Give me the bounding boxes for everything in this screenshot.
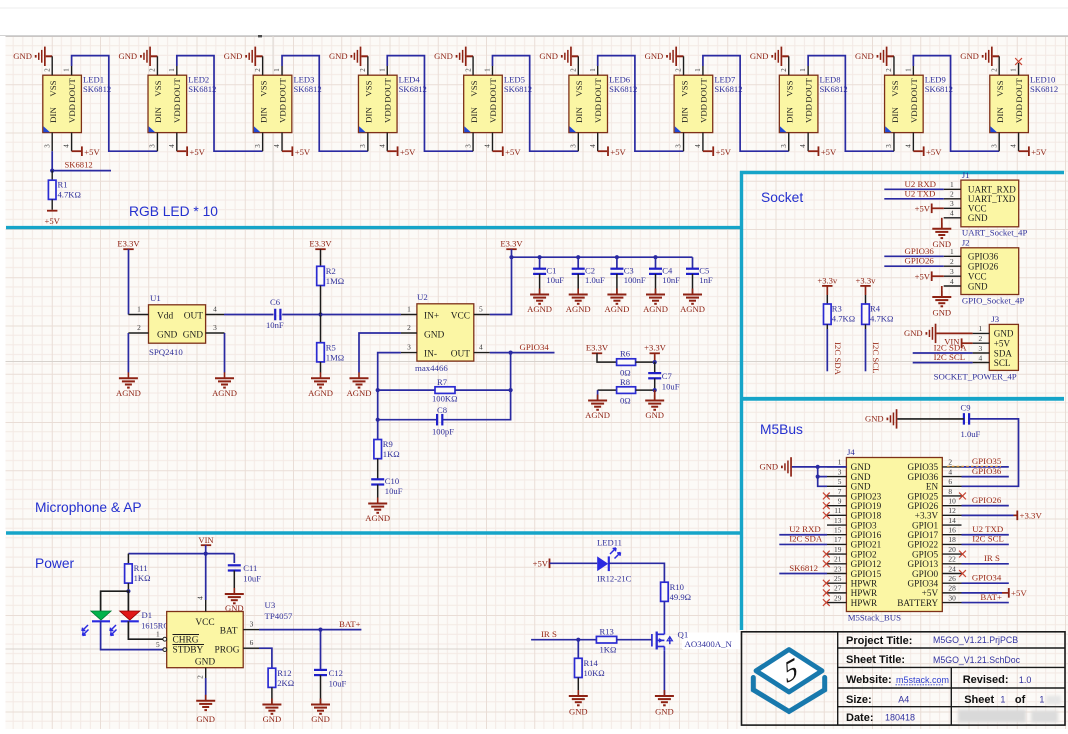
ground AGND (U2 pin2) xyxy=(358,372,360,378)
svg-text:GPIO26: GPIO26 xyxy=(972,495,1002,505)
svg-text:5: 5 xyxy=(156,640,160,649)
svg-text:GPIO26: GPIO26 xyxy=(905,256,935,266)
wire LED11 to R10 xyxy=(609,563,665,582)
pin 8 GPIO25 (J4 right) xyxy=(907,487,961,502)
capacitor C1 10uF xyxy=(533,257,564,293)
wire C6 to node xyxy=(282,314,320,316)
LED11 IR12-21C xyxy=(597,548,620,571)
wire GPIO34 from J4.26 xyxy=(962,572,1009,583)
svg-text:VSS: VSS xyxy=(153,80,163,96)
ground GND (J1.4) xyxy=(941,218,943,229)
svg-text:C5: C5 xyxy=(699,266,709,276)
ground GND (R14) xyxy=(577,690,579,696)
svg-text:Sheet: Sheet xyxy=(964,694,994,706)
RGB LED LED9 SK6812 component body xyxy=(885,75,924,132)
svg-text:GND: GND xyxy=(760,462,779,472)
svg-text:1: 1 xyxy=(156,630,160,639)
svg-text:AGND: AGND xyxy=(212,388,237,398)
ground AGND (U1 pin2) xyxy=(127,372,129,378)
svg-text:14: 14 xyxy=(948,516,956,525)
resistor R4 4.7K xyxy=(862,304,894,372)
node rail junction C2 xyxy=(576,255,580,259)
power VIN (J3.2) xyxy=(944,336,972,348)
pin 19 GPIO2 (J4 left) xyxy=(827,545,877,560)
svg-text:2: 2 xyxy=(780,68,788,72)
pin 6 PROG (U3) xyxy=(243,638,259,648)
power +3.3v (R4) xyxy=(856,275,877,304)
svg-text:+3.3V: +3.3V xyxy=(915,511,939,521)
svg-text:LED8: LED8 xyxy=(820,75,841,85)
svg-text:VDD: VDD xyxy=(698,104,708,123)
svg-text:M5GO_V1.21.PrjPCB: M5GO_V1.21.PrjPCB xyxy=(933,635,1018,645)
svg-text:C12: C12 xyxy=(329,668,343,678)
svg-text:3: 3 xyxy=(43,144,51,148)
svg-text:GPIO12: GPIO12 xyxy=(851,559,882,569)
svg-text:VDD: VDD xyxy=(593,104,603,123)
svg-text:100KΩ: 100KΩ xyxy=(432,394,457,404)
pin 3 DIN stub (LED9) xyxy=(885,133,894,152)
svg-text:Sheet Title:: Sheet Title: xyxy=(846,654,905,666)
node gnd junction pin1 xyxy=(816,465,820,469)
pin 4 GPIO36 (J4 right) xyxy=(907,467,961,482)
svg-text:GND: GND xyxy=(994,329,1014,339)
pin 3 GND right (U1) with wire to AGND xyxy=(206,323,225,373)
svg-text:100pF: 100pF xyxy=(432,427,454,437)
connector J3 body xyxy=(989,324,1018,370)
pin 11 GPIO18 (J4 left) xyxy=(827,506,882,521)
svg-text:E3.3V: E3.3V xyxy=(309,239,332,249)
svg-text:4: 4 xyxy=(904,144,912,148)
svg-text:I2C SCL: I2C SCL xyxy=(972,534,1004,544)
pin 30 BATTERY (J4 right) xyxy=(897,593,961,608)
pin 4 VDD stub and +5V power (LED8) xyxy=(799,133,837,157)
power +3.3V (J4.12) xyxy=(962,510,1043,520)
svg-text:1: 1 xyxy=(1010,68,1018,72)
svg-text:24: 24 xyxy=(948,564,956,573)
title block: Sheet Title xyxy=(846,654,1021,666)
pin 1 CHRG (U3) bubble xyxy=(156,630,167,642)
no-connect X on LED10 DOUT xyxy=(1018,63,1020,66)
svg-text:4.7KΩ: 4.7KΩ xyxy=(832,314,855,324)
ground AGND (R8) xyxy=(597,395,599,401)
RGB LED LED3 SK6812 component body xyxy=(253,75,292,132)
pin 3 DIN stub (LED5) xyxy=(464,133,473,152)
svg-text:49.9Ω: 49.9Ω xyxy=(670,592,691,602)
capacitor C10 10uF xyxy=(371,476,402,498)
net label IR_S wire xyxy=(531,629,596,640)
pin 1 DOUT stub (LED3) xyxy=(273,66,282,75)
svg-text:+3.3v: +3.3v xyxy=(856,275,877,285)
pin 3 DIN stub (LED8) xyxy=(780,133,789,152)
svg-text:GPIO5: GPIO5 xyxy=(912,549,938,559)
title block: Date 180418 xyxy=(846,712,915,724)
svg-text:+5V: +5V xyxy=(1011,588,1027,598)
wire SK6812 to J4.23 xyxy=(779,563,827,574)
wire I2C_SCL from J4.18 xyxy=(962,534,1009,545)
pin 1 UART_RXD (J1) xyxy=(944,180,1017,195)
svg-text:1: 1 xyxy=(950,180,954,189)
svg-text:R13: R13 xyxy=(600,627,614,637)
svg-text:of: of xyxy=(1015,694,1026,706)
svg-text:LED7: LED7 xyxy=(714,75,736,85)
svg-text:3: 3 xyxy=(407,343,411,352)
title block: Sheet 1 of 1 xyxy=(964,694,1044,706)
svg-text:SK6812: SK6812 xyxy=(399,84,427,94)
wire OUT to GPIO34 xyxy=(490,342,555,353)
ground GND (J4 pins 1/3/5) xyxy=(760,457,847,476)
svg-text:DOUT: DOUT xyxy=(67,78,77,103)
RGB LED LED8 SK6812 component body xyxy=(779,75,818,132)
pin 1 GND (J4 left) xyxy=(827,458,871,473)
svg-text:DOUT: DOUT xyxy=(277,78,287,103)
svg-text:GND: GND xyxy=(311,714,330,724)
svg-text:VSS: VSS xyxy=(679,80,689,96)
svg-text:1: 1 xyxy=(978,324,982,333)
svg-text:DIN: DIN xyxy=(364,107,374,123)
svg-text:20: 20 xyxy=(948,545,956,554)
svg-text:2: 2 xyxy=(149,68,157,72)
svg-text:U2 TXD: U2 TXD xyxy=(905,188,936,198)
wire green LED cathode to U3 pin5 xyxy=(101,621,163,649)
svg-text:GPIO36: GPIO36 xyxy=(905,246,935,256)
faint major grid lines xyxy=(0,361,1068,363)
svg-text:GND: GND xyxy=(851,462,871,472)
pin 12 +3.3V (J4 right) xyxy=(915,506,962,521)
svg-text:+5V: +5V xyxy=(915,204,931,214)
pin 24 GPIO0 (J4 right) xyxy=(912,564,961,579)
svg-text:0Ω: 0Ω xyxy=(620,396,631,406)
ground GND (C7) xyxy=(654,390,656,399)
svg-text:R12: R12 xyxy=(277,668,291,678)
svg-text:AGND: AGND xyxy=(365,513,390,523)
node C7/R8 junction xyxy=(653,388,657,392)
ground GND (R12) xyxy=(271,699,273,705)
svg-text:+5V: +5V xyxy=(45,216,61,226)
svg-text:AGND: AGND xyxy=(308,388,333,398)
wire U2_TXD to J1.2 xyxy=(884,188,943,199)
svg-text:DOUT: DOUT xyxy=(698,78,708,103)
node mic bias junction xyxy=(318,312,322,316)
capacitor C2 1.0uF xyxy=(572,257,605,293)
pin 2 VSS stub (LED3) xyxy=(254,56,263,75)
ground GND (Q1) xyxy=(663,690,665,696)
svg-text:Revised:: Revised: xyxy=(963,674,1009,686)
svg-text:4: 4 xyxy=(799,144,807,148)
svg-text:2: 2 xyxy=(978,334,982,343)
pin 4 VDD stub and +5V power (LED7) xyxy=(694,133,732,157)
title block: Size A4 xyxy=(846,694,909,706)
wire DOUT LED3 to DIN LED4 xyxy=(282,56,368,152)
svg-text:AGND: AGND xyxy=(347,388,372,398)
power E3.3V (R2 top) xyxy=(309,239,332,267)
resistor R1 4.7K xyxy=(48,171,80,200)
RGB LED LED6 SK6812 component body xyxy=(569,75,608,132)
node R7 right junction xyxy=(509,388,513,392)
svg-text:4: 4 xyxy=(694,144,702,148)
power E3.3V (U1 supply) xyxy=(117,239,140,315)
M5 logo cube xyxy=(753,650,824,712)
svg-text:1: 1 xyxy=(407,305,411,314)
svg-text:29: 29 xyxy=(834,593,842,602)
ground GND (top of LED4) xyxy=(329,47,368,66)
svg-text:3: 3 xyxy=(838,467,842,476)
svg-text:IN-: IN- xyxy=(424,350,437,360)
svg-text:IR S: IR S xyxy=(541,629,557,639)
designator label LED9 / SK6812 xyxy=(925,75,953,95)
title block: Revised 1.0 xyxy=(963,674,1032,686)
svg-text:28: 28 xyxy=(948,584,956,593)
wire PROG to R12 xyxy=(259,648,272,668)
resistor R8 0ohm xyxy=(598,377,655,406)
wire DOUT LED9 to DIN LED10 xyxy=(913,56,999,152)
svg-text:3: 3 xyxy=(149,144,157,148)
svg-text:GPIO34: GPIO34 xyxy=(972,572,1002,582)
svg-text:AGND: AGND xyxy=(116,388,141,398)
wire LED1 DIN down to SK6812 net xyxy=(51,151,53,170)
svg-text:VCC: VCC xyxy=(968,272,987,282)
svg-text:LED2: LED2 xyxy=(188,75,209,85)
connector J2 body xyxy=(961,248,1019,295)
svg-text:I2C SCL: I2C SCL xyxy=(934,352,966,362)
svg-text:2: 2 xyxy=(195,675,204,679)
svg-text:1: 1 xyxy=(168,68,176,72)
svg-text:3: 3 xyxy=(213,323,217,332)
power +5V (J1.3) xyxy=(915,204,944,214)
svg-text:10: 10 xyxy=(948,496,956,505)
ground GND (top of LED10) xyxy=(960,47,999,66)
pin 1 DOUT stub (LED2) xyxy=(168,66,177,75)
svg-text:2: 2 xyxy=(407,323,411,332)
wire GPIO36 to J2.1 xyxy=(884,246,943,256)
pin 20 GPIO5 (J4 right) xyxy=(912,545,961,560)
svg-text:R8: R8 xyxy=(620,377,630,387)
svg-text:VDD: VDD xyxy=(383,104,393,123)
ground GND (U3 pin2) xyxy=(205,695,207,701)
svg-text:+5V: +5V xyxy=(994,339,1011,349)
power +5V (IR LED) xyxy=(533,559,598,569)
capacitor C8 100pF (feedback) xyxy=(378,405,454,437)
svg-text:1: 1 xyxy=(589,68,597,72)
svg-text:2: 2 xyxy=(254,68,262,72)
svg-text:3: 3 xyxy=(675,144,683,148)
svg-text:GPIO2: GPIO2 xyxy=(851,549,877,559)
svg-text:GND: GND xyxy=(750,51,769,61)
capacitor C7 10uF xyxy=(648,362,679,391)
svg-text:J4: J4 xyxy=(847,447,855,457)
pin 2 VSS stub (LED7) xyxy=(675,56,684,75)
svg-text:GND: GND xyxy=(119,51,138,61)
svg-text:27: 27 xyxy=(834,584,842,593)
svg-text:13: 13 xyxy=(834,516,842,525)
power +5V (J4.28) xyxy=(962,588,1028,598)
svg-text:LED9: LED9 xyxy=(925,75,946,85)
pin 3 SDA (J3) xyxy=(973,344,1013,359)
svg-text:SOCKET_POWER_4P: SOCKET_POWER_4P xyxy=(934,372,1017,382)
IC U1 SPQ2410 microphone body xyxy=(149,305,206,343)
svg-text:SCL: SCL xyxy=(994,358,1011,368)
ground GND (J3.1 side symbol) xyxy=(904,324,973,343)
no-connect X (J4 pin 24) xyxy=(959,570,966,577)
svg-text:AGND: AGND xyxy=(585,410,610,420)
svg-text:3: 3 xyxy=(250,620,254,629)
pin 1 DOUT stub (LED6) xyxy=(589,66,598,75)
svg-text:1: 1 xyxy=(904,68,912,72)
svg-text:10nF: 10nF xyxy=(266,320,284,330)
svg-text:GND: GND xyxy=(968,213,988,223)
pin 1 IN+ (U2) xyxy=(401,305,417,315)
svg-text:+3.3V: +3.3V xyxy=(1020,510,1043,520)
svg-text:+5V: +5V xyxy=(84,147,100,157)
pin 2 VSS stub (LED4) xyxy=(359,56,368,75)
node SK6812 net junction xyxy=(50,169,54,173)
svg-text:1KΩ: 1KΩ xyxy=(134,573,151,583)
no-connect X (J4 pin 27) xyxy=(823,589,830,596)
svg-text:C9: C9 xyxy=(961,403,971,413)
wire node to U2 IN+ xyxy=(321,314,401,316)
svg-text:EN: EN xyxy=(926,482,939,492)
power +3.3V (R6 output) xyxy=(644,343,667,363)
svg-text:GPIO23: GPIO23 xyxy=(851,491,882,501)
svg-text:Microphone & AP: Microphone & AP xyxy=(35,500,142,515)
designator label LED10 / SK6812 xyxy=(1030,75,1058,95)
node feedback junction at C8 xyxy=(376,418,380,422)
title block: Website link m5stack.com xyxy=(846,674,949,686)
svg-text:8: 8 xyxy=(948,487,952,496)
svg-text:UART_RXD: UART_RXD xyxy=(968,185,1016,195)
svg-text:21: 21 xyxy=(834,555,842,564)
wire VCC to E3.3V rail xyxy=(490,257,512,314)
svg-text:16: 16 xyxy=(948,526,956,535)
svg-text:3: 3 xyxy=(780,144,788,148)
svg-text:6: 6 xyxy=(250,638,254,647)
power E3.3V (decoupling rail) xyxy=(500,239,523,258)
op-amp U2 max4466 body xyxy=(417,304,474,361)
wire BAT to BAT+ xyxy=(259,619,361,630)
pin 1 GND (J3) xyxy=(973,324,1014,339)
no-connect X (J4 pin 20) xyxy=(959,551,966,558)
resistor R5 1M xyxy=(317,315,344,373)
svg-text:4: 4 xyxy=(950,209,954,218)
svg-text:+3.3v: +3.3v xyxy=(817,275,838,285)
svg-text:GPIO15: GPIO15 xyxy=(851,569,882,579)
svg-text:R2: R2 xyxy=(326,266,336,276)
resistor R9 1K xyxy=(374,439,400,479)
svg-text:4: 4 xyxy=(978,353,982,362)
pin 4 OUT (U2) xyxy=(474,343,490,353)
pin 4 VDD stub and +5V power (LED9) xyxy=(904,133,942,157)
pin 21 GPIO12 (J4 left) xyxy=(827,555,882,570)
svg-text:U1: U1 xyxy=(150,293,161,303)
svg-text:R10: R10 xyxy=(670,582,684,592)
svg-text:1: 1 xyxy=(273,68,281,72)
svg-text:VDD: VDD xyxy=(804,104,814,123)
designator label LED4 / SK6812 xyxy=(399,75,427,95)
wire GPIO26 from J4.10 xyxy=(962,495,1009,506)
svg-text:4: 4 xyxy=(948,467,952,476)
no-connect X (J4 pin 29) xyxy=(823,599,830,606)
svg-text:HPWR: HPWR xyxy=(851,588,878,598)
pin 2 GPIO35 (J4 right) xyxy=(907,458,961,473)
wire GPIO35 from J4.2 xyxy=(947,456,1009,467)
svg-text:GND: GND xyxy=(645,410,664,420)
wire OUT node down to feedback xyxy=(443,353,511,420)
svg-text:4: 4 xyxy=(378,144,386,148)
svg-text:SK6812: SK6812 xyxy=(1030,84,1058,94)
M5Bus section top border (cyan) xyxy=(740,397,1064,401)
designator label LED6 / SK6812 xyxy=(609,75,637,95)
node +3.3V junction xyxy=(653,360,657,364)
wire to dual LED anodes xyxy=(101,591,129,611)
pin 1 Vdd (U1) xyxy=(128,305,148,315)
svg-text:10uF: 10uF xyxy=(662,382,680,392)
IC U3 TP4057 body xyxy=(167,612,244,668)
svg-text:VSS: VSS xyxy=(48,80,58,96)
pin 2 VSS stub (LED10) xyxy=(990,56,999,75)
designator label LED8 / SK6812 xyxy=(820,75,848,95)
pin 4 OUT (U1) xyxy=(206,305,224,315)
svg-text:3: 3 xyxy=(950,267,954,276)
svg-text:AGND: AGND xyxy=(643,304,668,314)
svg-text:22: 22 xyxy=(948,555,956,564)
node IR_S junction xyxy=(576,638,580,642)
svg-text:2: 2 xyxy=(990,68,998,72)
svg-text:LED11: LED11 xyxy=(597,538,622,548)
ground AGND (U1 pin3) xyxy=(224,372,226,378)
transistor Q1 AO3400A_N MOSFET xyxy=(652,631,673,651)
resistor R10 49.9ohm xyxy=(661,582,691,631)
pin 1 DOUT stub (LED7) xyxy=(694,66,703,75)
RGB LED LED2 SK6812 component body xyxy=(148,75,187,132)
svg-text:Power: Power xyxy=(35,556,75,571)
svg-text:GND: GND xyxy=(904,328,923,338)
RGB LED LED4 SK6812 component body xyxy=(358,75,397,132)
svg-text:C10: C10 xyxy=(385,476,399,486)
no-connect X (J4 pin 7) xyxy=(823,493,830,500)
svg-text:4: 4 xyxy=(213,305,217,314)
svg-text:VDD: VDD xyxy=(67,104,77,123)
svg-text:GND: GND xyxy=(13,51,32,61)
svg-text:GND: GND xyxy=(932,308,951,318)
power E3.3V (R6 input) xyxy=(586,343,617,363)
svg-text:BATTERY: BATTERY xyxy=(897,598,938,608)
svg-text:GND: GND xyxy=(539,51,558,61)
svg-text:1nF: 1nF xyxy=(699,275,713,285)
pin 3 BAT (U3) xyxy=(243,620,259,630)
pin 2 GND (U3) xyxy=(195,668,205,700)
pin 2 VSS stub (LED8) xyxy=(780,56,789,75)
svg-text:5: 5 xyxy=(838,477,842,486)
wire I2C_SDA to J4.17 xyxy=(779,534,827,545)
svg-text:R14: R14 xyxy=(584,658,599,668)
svg-text:4: 4 xyxy=(1010,144,1018,148)
svg-text:4: 4 xyxy=(589,144,597,148)
wire R8 left to AGND xyxy=(597,390,599,399)
svg-text:1.0uF: 1.0uF xyxy=(585,275,605,285)
pin 7 GPIO23 (J4 left) xyxy=(827,487,882,502)
svg-text:GND: GND xyxy=(855,51,874,61)
svg-text:M5Bus: M5Bus xyxy=(760,422,803,437)
watermark smudges xyxy=(958,696,1061,723)
resistor R6 0ohm xyxy=(617,349,655,378)
wire SK6812 net xyxy=(52,160,111,171)
svg-text:SK6812: SK6812 xyxy=(83,84,111,94)
section divider: Microphone section bottom (cyan) xyxy=(6,531,742,534)
svg-text:VDD: VDD xyxy=(488,104,498,123)
svg-text:GND: GND xyxy=(851,482,871,492)
svg-text:VDD: VDD xyxy=(277,104,287,123)
no-connect X (J4 pin 19) xyxy=(823,551,830,558)
svg-text:3: 3 xyxy=(950,199,954,208)
